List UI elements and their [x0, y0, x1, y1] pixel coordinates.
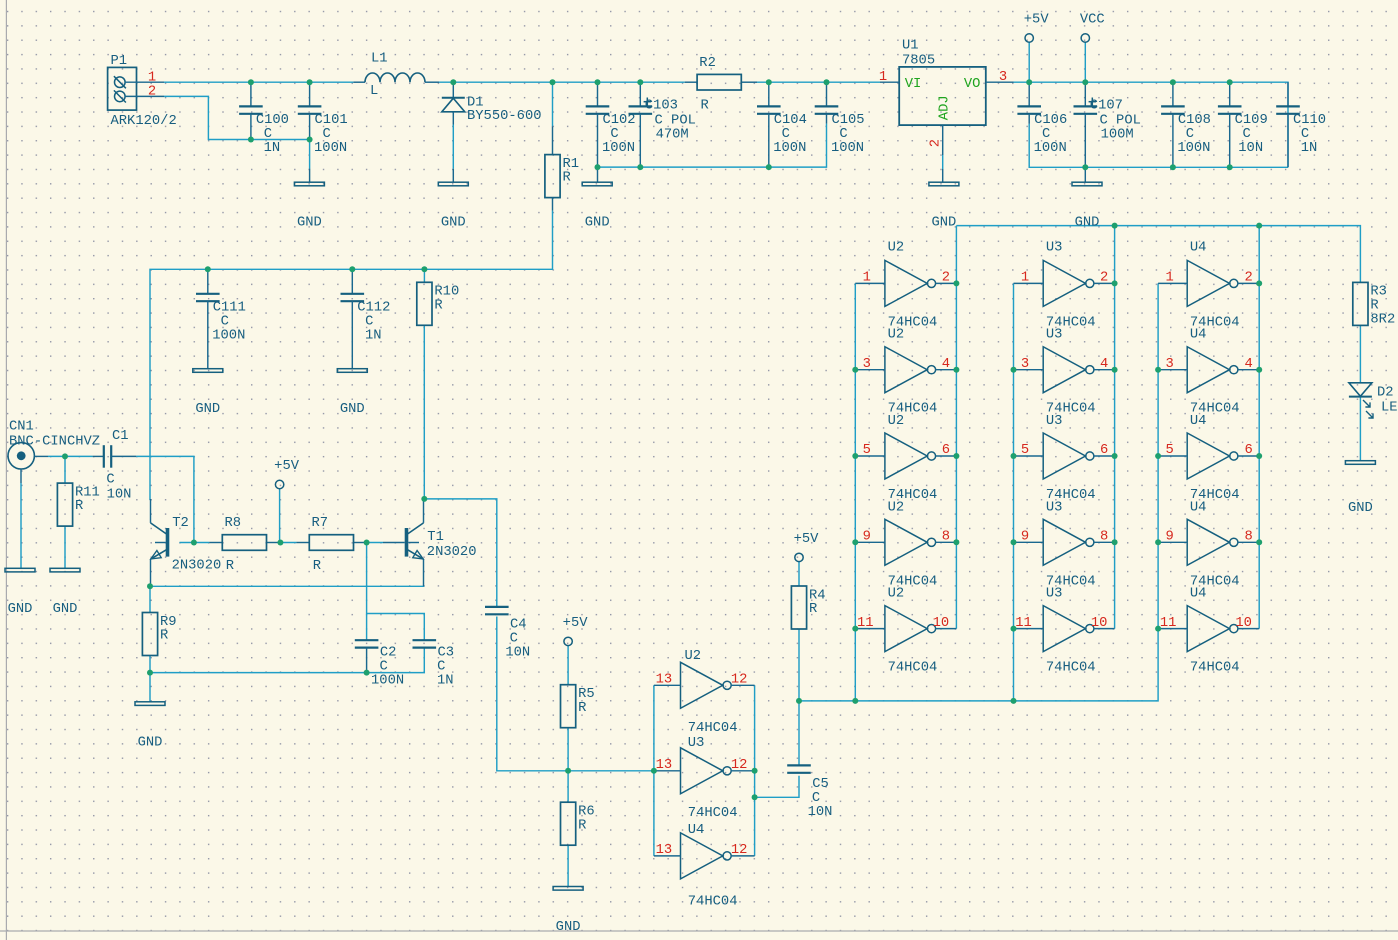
svg-text:U3: U3	[688, 736, 705, 751]
capacitor C108	[1161, 82, 1211, 167]
svg-text:13: 13	[656, 673, 673, 688]
svg-text:U3: U3	[1046, 328, 1063, 343]
wire C5 bottom to output bus	[755, 776, 799, 798]
wire main input bus (P1 to U1 and C110)	[164, 82, 1288, 167]
inverter U4 pins 11-10	[1158, 606, 1259, 652]
resistor R2	[685, 56, 757, 114]
svg-text:2: 2	[942, 271, 950, 286]
svg-text:1N: 1N	[365, 328, 382, 343]
power symbol VCC	[1080, 13, 1105, 42]
wire inverter output bus to R3	[956, 226, 1360, 283]
svg-text:C103: C103	[645, 98, 678, 113]
svg-text:12: 12	[731, 673, 748, 688]
svg-text:U3: U3	[1046, 241, 1063, 256]
svg-text:VO: VO	[964, 77, 981, 92]
svg-text:10: 10	[1235, 616, 1252, 631]
wire C1 to T2 base	[136, 456, 194, 542]
svg-text:C100: C100	[256, 113, 289, 128]
svg-text:1N: 1N	[437, 674, 454, 689]
svg-text:9: 9	[863, 530, 871, 545]
wire bottom inverters input bus	[653, 685, 655, 856]
inverter U2 pins 5-6	[855, 433, 956, 479]
svg-text:VCC: VCC	[1080, 13, 1105, 28]
inverter U3 pins 5-6	[1014, 433, 1115, 479]
wire T1 base to C2	[366, 543, 368, 641]
svg-text:C2: C2	[380, 646, 397, 661]
svg-text:5: 5	[1021, 443, 1029, 458]
svg-text:U4: U4	[1190, 328, 1207, 343]
wire R6 to GND	[567, 845, 569, 886]
capacitor C111	[196, 269, 246, 368]
capacitor C101	[298, 82, 348, 156]
inverter U4 pins 13-12	[654, 833, 755, 879]
capacitor C107 (polarized)	[1074, 82, 1141, 167]
svg-text:9: 9	[1165, 530, 1173, 545]
ground symbol of C112	[337, 369, 367, 418]
svg-text:74HC04: 74HC04	[688, 721, 738, 736]
svg-text:D2: D2	[1377, 386, 1394, 401]
wire D1 anode to GND	[452, 125, 454, 169]
wire R11 to GND	[64, 526, 66, 568]
regulator U1 7805	[880, 39, 1014, 183]
svg-text:R8: R8	[225, 516, 242, 531]
LED D2	[1349, 383, 1398, 418]
inverter U2 pins 3-4	[855, 347, 956, 393]
svg-text:C5: C5	[812, 777, 829, 792]
svg-text:R2: R2	[699, 56, 716, 71]
svg-text:C104: C104	[774, 113, 807, 128]
svg-text:6: 6	[1100, 443, 1108, 458]
svg-text:100N: 100N	[602, 141, 635, 156]
svg-text:9: 9	[1021, 530, 1029, 545]
svg-text:13: 13	[656, 758, 673, 773]
svg-text:8: 8	[942, 530, 950, 545]
wire U2 column input bus	[854, 283, 856, 701]
svg-text:+5V: +5V	[563, 616, 589, 631]
svg-text:C3: C3	[438, 646, 455, 661]
svg-text:C: C	[1186, 127, 1194, 142]
svg-text:L: L	[370, 84, 378, 99]
capacitor C4	[485, 607, 530, 661]
svg-text:100N: 100N	[371, 674, 404, 689]
svg-text:5: 5	[863, 443, 871, 458]
power symbol +5V (top right)	[1024, 13, 1050, 42]
inductor L1	[353, 52, 439, 100]
svg-text:R: R	[809, 602, 817, 617]
wire R5 bottom	[567, 728, 569, 771]
resistor R7	[296, 516, 366, 574]
wire R3 to D2	[1359, 326, 1361, 383]
svg-text:P1: P1	[111, 54, 128, 69]
power symbol +5V (R5)	[563, 616, 589, 646]
svg-text:C107: C107	[1090, 98, 1123, 113]
svg-text:R6: R6	[578, 805, 595, 820]
wire C4 to input bus	[497, 617, 654, 771]
svg-text:100N: 100N	[314, 141, 347, 156]
svg-text:100N: 100N	[1034, 141, 1067, 156]
ground symbol of D1	[452, 169, 454, 182]
svg-text:C108: C108	[1178, 113, 1211, 128]
inverter U4 pins 5-6	[1158, 433, 1259, 479]
svg-text:U2: U2	[888, 500, 905, 515]
svg-text:3: 3	[1021, 357, 1029, 372]
ground symbol of C102	[597, 167, 599, 182]
svg-text:C: C	[610, 127, 618, 142]
wire +5V to bus	[1028, 42, 1030, 82]
svg-text:100M: 100M	[1101, 128, 1134, 143]
svg-text:12: 12	[731, 758, 748, 773]
wire T2 base row	[180, 542, 384, 544]
svg-text:GND: GND	[1348, 501, 1373, 516]
svg-text:1: 1	[863, 271, 871, 286]
wire R10 to T1 collector	[423, 326, 425, 500]
svg-text:R9: R9	[160, 615, 177, 630]
svg-text:2: 2	[1245, 271, 1253, 286]
svg-text:U4: U4	[1190, 414, 1207, 429]
svg-text:11: 11	[857, 616, 874, 631]
svg-text:3: 3	[1165, 357, 1173, 372]
resistor R1	[545, 126, 579, 210]
diode D1	[442, 82, 542, 124]
inverter U2 pins 13-12	[654, 662, 755, 708]
svg-text:U1: U1	[902, 39, 919, 54]
svg-text:1N: 1N	[1301, 141, 1318, 156]
svg-text:C: C	[437, 660, 445, 675]
wire U2 column output bus	[955, 226, 957, 629]
wire C2 top to C3 top	[367, 614, 425, 641]
transistor T2 2N3020	[151, 499, 170, 586]
svg-text:CN1: CN1	[9, 419, 34, 434]
svg-text:470M: 470M	[656, 128, 689, 143]
svg-text:GND: GND	[441, 216, 466, 231]
wire R9 top	[149, 586, 151, 612]
svg-text:C: C	[221, 315, 229, 330]
ground symbol of R6	[553, 887, 583, 936]
svg-text:U2: U2	[888, 414, 905, 429]
svg-text:C105: C105	[831, 113, 864, 128]
svg-text:C102: C102	[602, 113, 635, 128]
resistor R11	[57, 483, 99, 526]
resistor R6	[561, 802, 595, 845]
capacitor C2	[355, 640, 404, 688]
svg-text:11: 11	[1015, 616, 1032, 631]
svg-text:U3: U3	[1046, 587, 1063, 602]
capacitor C103 (polarized)	[629, 82, 696, 167]
wire R6 top	[567, 771, 569, 802]
svg-text:C POL: C POL	[655, 114, 696, 129]
transistor T1 2N3020	[405, 499, 424, 586]
inverter U4 pins 1-2	[1158, 260, 1259, 306]
svg-text:U4: U4	[1190, 500, 1207, 515]
svg-text:2: 2	[1100, 271, 1108, 286]
svg-text:8: 8	[1100, 530, 1108, 545]
svg-text:C4: C4	[510, 618, 527, 633]
wire C2/C3 bottom bus to R9	[150, 648, 424, 702]
capacitor C109	[1218, 82, 1268, 167]
capacitor C3	[413, 640, 455, 688]
svg-text:GND: GND	[297, 216, 322, 231]
inverter U2 pins 11-10	[855, 606, 956, 652]
ground symbol of U1	[929, 182, 959, 231]
svg-text:R11: R11	[75, 485, 100, 500]
svg-text:R: R	[160, 629, 168, 644]
capacitor C105	[815, 82, 865, 156]
svg-text:13: 13	[656, 843, 673, 858]
svg-text:GND: GND	[53, 602, 78, 617]
wire +5V to R4	[798, 562, 800, 586]
svg-text:R3: R3	[1370, 285, 1387, 300]
svg-text:C POL: C POL	[1100, 114, 1141, 129]
inverter U4 pins 3-4	[1158, 347, 1259, 393]
svg-text:U2: U2	[685, 649, 702, 664]
wire R4 to C5	[798, 629, 800, 765]
svg-text:10: 10	[933, 616, 950, 631]
wire R1 top	[552, 82, 554, 126]
svg-text:2N3020: 2N3020	[427, 545, 477, 560]
svg-text:1: 1	[148, 70, 156, 85]
svg-text:R10: R10	[434, 285, 459, 300]
svg-text:4: 4	[1100, 357, 1108, 372]
svg-text:U2: U2	[888, 241, 905, 256]
svg-text:8: 8	[1245, 530, 1253, 545]
inverter U3 pins 13-12	[654, 748, 755, 794]
wire +5V to R5	[567, 646, 569, 685]
svg-text:C: C	[1243, 127, 1251, 142]
svg-text:3: 3	[999, 70, 1007, 85]
svg-text:1: 1	[879, 70, 887, 85]
svg-text:LED: LED	[1381, 401, 1398, 416]
svg-text:74HC04: 74HC04	[1190, 661, 1240, 676]
svg-text:U3: U3	[1046, 414, 1063, 429]
svg-text:C: C	[782, 127, 790, 142]
svg-text:2N3020: 2N3020	[172, 559, 222, 574]
wire P1 pin2 to C100/C101 bottom bus	[164, 96, 310, 139]
svg-text:GND: GND	[1075, 216, 1100, 231]
svg-text:C: C	[1301, 127, 1309, 142]
svg-text:C111: C111	[213, 301, 246, 316]
capacitor C1	[93, 429, 137, 502]
svg-text:6: 6	[1245, 443, 1253, 458]
inverter U2 pins 9-8	[855, 519, 956, 565]
svg-text:100N: 100N	[212, 328, 245, 343]
resistor R4	[791, 586, 825, 629]
wire +5V to base row	[279, 489, 281, 543]
svg-text:R: R	[563, 171, 571, 186]
connector P1	[108, 54, 177, 129]
svg-text:U4: U4	[1190, 241, 1207, 256]
svg-text:C112: C112	[357, 301, 390, 316]
svg-text:10N: 10N	[1238, 141, 1263, 156]
resistor R10	[417, 282, 459, 325]
svg-text:U2: U2	[888, 587, 905, 602]
svg-text:1: 1	[1021, 271, 1029, 286]
svg-text:C1: C1	[112, 429, 129, 444]
wire R1 bottom to mid rail	[150, 211, 553, 501]
svg-text:R: R	[701, 99, 709, 114]
svg-text:R: R	[1370, 299, 1378, 314]
svg-text:R: R	[313, 559, 321, 574]
svg-text:6: 6	[942, 443, 950, 458]
svg-text:C101: C101	[315, 113, 348, 128]
svg-text:5: 5	[1165, 443, 1173, 458]
svg-text:C109: C109	[1235, 113, 1268, 128]
svg-text:C: C	[812, 791, 820, 806]
inverter U3 pins 1-2	[1014, 260, 1115, 306]
wire C101 to GND	[309, 140, 311, 169]
svg-text:2: 2	[929, 139, 944, 147]
svg-text:GND: GND	[556, 920, 581, 935]
ground symbol of R9	[135, 702, 165, 751]
resistor R3	[1353, 282, 1395, 327]
ground symbol of C111	[193, 369, 223, 418]
svg-text:R4: R4	[809, 588, 826, 603]
svg-text:10N: 10N	[107, 488, 132, 503]
svg-text:2: 2	[148, 85, 156, 100]
svg-text:+5V: +5V	[794, 532, 820, 547]
power symbol +5V (R4)	[794, 532, 820, 562]
svg-text:R: R	[578, 701, 586, 716]
svg-text:+5V: +5V	[1024, 13, 1050, 28]
svg-text:1: 1	[1165, 271, 1173, 286]
capacitor C100	[239, 82, 289, 156]
svg-text:C: C	[510, 632, 518, 647]
svg-text:C: C	[379, 660, 387, 675]
svg-text:ADJ: ADJ	[937, 95, 952, 120]
wire C106-C110 bottom bus	[1029, 124, 1288, 168]
power symbol +5V (base row)	[274, 459, 300, 488]
wire BNC to C1	[48, 455, 93, 457]
inverter U3 pins 3-4	[1014, 347, 1115, 393]
inverter U3 pins 11-10	[1014, 606, 1115, 652]
wire D2 to GND	[1359, 397, 1361, 461]
svg-text:R7: R7	[312, 516, 329, 531]
svg-text:BNC-CINCHVZ: BNC-CINCHVZ	[9, 435, 100, 450]
wire drive line to inverter columns	[799, 283, 1158, 701]
svg-text:R: R	[226, 559, 234, 574]
wire U3 column input bus	[1013, 283, 1015, 701]
svg-text:10: 10	[1091, 616, 1108, 631]
svg-text:74HC04: 74HC04	[688, 895, 738, 910]
svg-text:VI: VI	[905, 77, 922, 92]
svg-text:U4: U4	[1190, 587, 1207, 602]
svg-text:C: C	[106, 473, 114, 488]
ground symbol of C101	[309, 169, 311, 183]
svg-text:4: 4	[942, 357, 950, 372]
svg-text:U4: U4	[688, 823, 705, 838]
ground symbol of R11	[50, 568, 80, 617]
svg-text:ARK120/2: ARK120/2	[111, 113, 177, 129]
wire R10 top	[423, 269, 425, 282]
svg-text:74HC04: 74HC04	[688, 806, 738, 821]
svg-text:74HC04: 74HC04	[1046, 661, 1096, 676]
resistor R9	[142, 613, 176, 656]
svg-text:BY550-600: BY550-600	[467, 109, 542, 124]
capacitor C110	[1276, 82, 1326, 167]
svg-text:C: C	[322, 127, 330, 142]
svg-text:C: C	[1042, 127, 1050, 142]
ground symbol of D2	[1345, 461, 1375, 517]
svg-text:C: C	[264, 127, 272, 142]
svg-text:12: 12	[731, 843, 748, 858]
svg-text:GND: GND	[195, 402, 220, 417]
wire T1 collector to C4	[424, 499, 497, 607]
svg-text:10N: 10N	[505, 646, 530, 661]
svg-text:U3: U3	[1046, 500, 1063, 515]
inverter U4 pins 9-8	[1158, 519, 1259, 565]
capacitor C106	[1017, 82, 1067, 156]
wire emitter row T2 to T1	[150, 585, 424, 587]
svg-text:C110: C110	[1293, 113, 1326, 128]
svg-text:100N: 100N	[773, 141, 806, 156]
wire bottom inverters output bus	[754, 685, 756, 856]
svg-text:GND: GND	[138, 735, 163, 750]
resistor R8	[209, 516, 278, 574]
svg-text:1N: 1N	[264, 141, 281, 156]
svg-text:U2: U2	[888, 328, 905, 343]
svg-text:L1: L1	[371, 52, 388, 67]
wire U4 column output bus	[1258, 226, 1260, 629]
wire R11 top	[64, 456, 66, 483]
connector CN1 BNC	[8, 419, 100, 483]
svg-text:R: R	[434, 298, 442, 313]
svg-text:74HC04: 74HC04	[888, 661, 938, 676]
svg-text:4: 4	[1245, 357, 1253, 372]
capacitor C112	[341, 269, 391, 368]
wire BNC shield to GND	[20, 483, 22, 568]
svg-text:11: 11	[1160, 616, 1177, 631]
wire VCC to bus	[1084, 42, 1086, 82]
svg-text:GND: GND	[585, 216, 610, 231]
capacitor C5	[787, 765, 832, 819]
svg-text:GND: GND	[931, 216, 956, 231]
svg-text:R: R	[578, 818, 586, 833]
svg-text:3: 3	[863, 357, 871, 372]
svg-text:7805: 7805	[902, 54, 935, 69]
ground symbol of C107	[1084, 167, 1086, 182]
svg-text:R1: R1	[563, 157, 580, 172]
inverter U3 pins 9-8	[1014, 519, 1115, 565]
wire C102-C105 ground bus	[598, 124, 827, 168]
svg-text:R: R	[75, 499, 83, 514]
svg-text:C: C	[839, 127, 847, 142]
svg-text:T1: T1	[427, 530, 444, 545]
resistor R5	[561, 685, 595, 728]
svg-text:R5: R5	[578, 687, 595, 702]
svg-text:C106: C106	[1034, 113, 1067, 128]
svg-text:100N: 100N	[831, 141, 864, 156]
svg-text:100N: 100N	[1177, 141, 1210, 156]
svg-text:10N: 10N	[808, 805, 833, 820]
svg-text:+5V: +5V	[274, 459, 300, 474]
capacitor C104	[757, 82, 807, 167]
svg-text:C: C	[365, 315, 373, 330]
ground symbol of CN1	[5, 568, 35, 617]
svg-text:8R2: 8R2	[1370, 312, 1395, 327]
svg-text:GND: GND	[8, 602, 33, 617]
inverter U2 pins 1-2	[855, 260, 956, 306]
svg-text:GND: GND	[340, 402, 365, 417]
svg-text:T2: T2	[172, 516, 189, 531]
capacitor C102	[586, 82, 636, 167]
wire U3 column output bus	[1114, 226, 1116, 629]
